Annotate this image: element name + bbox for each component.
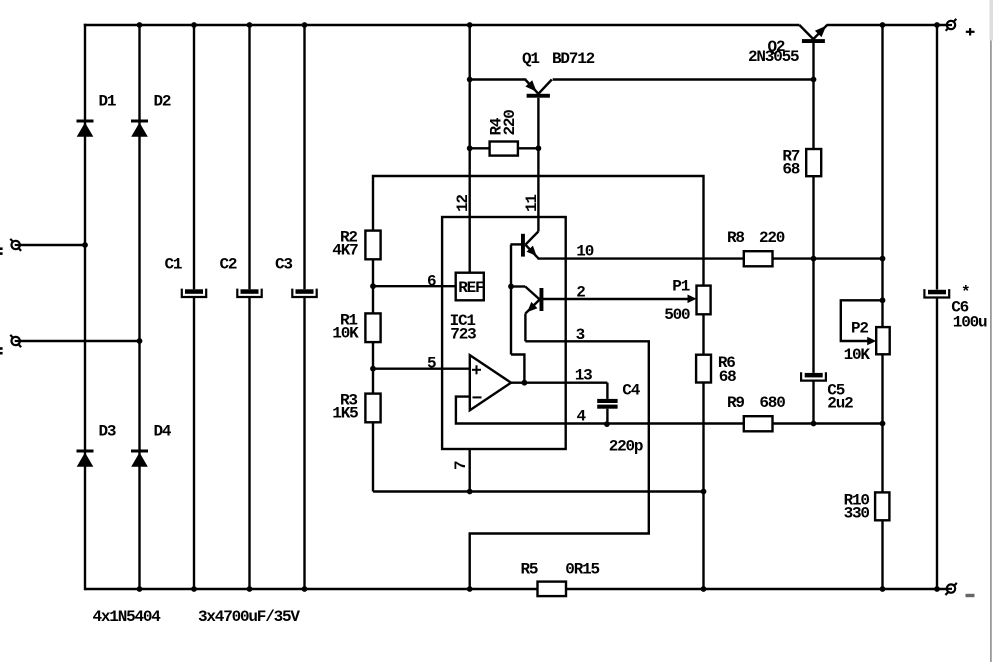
label minus — [966, 594, 975, 597]
svg-text:2N3055: 2N3055 — [748, 48, 799, 66]
label C1 — [165, 255, 182, 273]
wire pin5 — [373, 368, 470, 370]
svg-text:P2: P2 — [851, 319, 868, 337]
svg-text:C2: C2 — [220, 255, 237, 273]
label pin 2 — [576, 284, 585, 302]
resistor R2 — [365, 231, 380, 260]
wire P2 wiper loop — [841, 300, 883, 341]
svg-text:220: 220 — [759, 229, 785, 247]
svg-text:R5: R5 — [521, 560, 538, 578]
wire pin6 — [373, 285, 456, 287]
resistor R1 — [365, 313, 380, 342]
label D2 — [154, 92, 171, 110]
svg-text:3x4700uF/35V: 3x4700uF/35V — [198, 608, 300, 626]
wire output divider vertical — [881, 25, 883, 589]
svg-text:330: 330 — [844, 504, 870, 522]
resistor R8 — [744, 251, 773, 266]
wire pin10 R8 line — [538, 257, 883, 259]
svg-text:680: 680 — [759, 394, 785, 412]
wire Q1 collector to Q2 base — [553, 78, 814, 80]
capacitor C6 — [924, 289, 949, 297]
wire top rail right — [827, 24, 947, 26]
label C5 value — [827, 382, 853, 413]
label R8 value — [727, 229, 785, 247]
capacitor C1 — [182, 289, 206, 297]
label R6 value — [718, 354, 736, 386]
potentiometer P2 — [867, 327, 890, 354]
label capacitor note — [198, 608, 300, 626]
capacitor C2 — [237, 289, 261, 297]
svg-text:220: 220 — [501, 110, 519, 136]
terminal input 1 — [10, 239, 21, 251]
label plus — [966, 28, 975, 35]
svg-text:Q1: Q1 — [522, 50, 539, 68]
left edge cropped glyphs — [0, 247, 3, 354]
label R3 value — [332, 391, 358, 422]
wire pin7 net — [373, 449, 704, 492]
resistor R5 — [538, 582, 567, 597]
label P1 value — [664, 277, 690, 324]
wire C4 leads — [606, 383, 608, 424]
transistor Q2 — [799, 25, 827, 43]
op-amp U2 error amplifier — [470, 355, 511, 410]
capacitor C3 — [292, 289, 316, 297]
svg-text:R9: R9 — [727, 394, 744, 412]
wire input 2 — [20, 340, 140, 342]
svg-text:1K5: 1K5 — [332, 404, 358, 422]
diode D3 — [77, 450, 94, 467]
label R9 value — [727, 394, 785, 412]
wire R2 R1 R3 chain — [372, 259, 374, 491]
svg-text:68: 68 — [782, 161, 799, 179]
svg-text:C1: C1 — [165, 255, 182, 273]
label R5 value — [521, 560, 600, 578]
svg-text:723: 723 — [450, 325, 476, 343]
label pin 13 — [575, 367, 592, 385]
diode D1 — [77, 120, 94, 137]
resistor R10 — [875, 492, 889, 520]
svg-text:D2: D2 — [154, 92, 171, 110]
wire pin13 line — [511, 382, 607, 384]
capacitor C5 — [801, 372, 826, 380]
terminal output minus — [945, 583, 956, 595]
wire pin12 vertical — [469, 25, 471, 273]
label pin 3 — [576, 326, 585, 344]
wire R4 link — [470, 147, 539, 149]
REF block U1 — [456, 273, 484, 301]
wire input 1 — [20, 244, 85, 246]
svg-text:D3: D3 — [99, 422, 116, 440]
wire bottom rail — [85, 588, 947, 590]
diode D2 — [131, 120, 148, 137]
IC1 box — [442, 217, 566, 449]
wire pin11 vertical — [537, 98, 539, 232]
label R7 value — [782, 148, 799, 179]
label R4 value rotated — [488, 110, 520, 136]
transistor T2 internal — [511, 245, 543, 383]
svg-text:10K: 10K — [844, 346, 871, 364]
wire pin2 line — [543, 298, 689, 300]
svg-text:R8: R8 — [727, 229, 744, 247]
svg-text:4x1N5404: 4x1N5404 — [93, 608, 162, 626]
label D4 — [154, 422, 172, 440]
wire C1 vertical — [193, 25, 195, 589]
transistor Q1 — [525, 80, 552, 98]
wire Q2 base R7 C5 vertical — [812, 43, 814, 424]
label C4 value — [609, 382, 643, 456]
wire C2 vertical — [248, 25, 250, 589]
svg-text:10K: 10K — [332, 324, 359, 342]
label D1 — [99, 92, 116, 110]
diode D4 — [131, 450, 148, 467]
wire D2/D4 vertical — [138, 25, 140, 589]
svg-text:D1: D1 — [99, 92, 116, 110]
label IC1 723 — [450, 312, 477, 344]
resistor R3 — [365, 394, 380, 423]
label pin 4 — [577, 408, 587, 426]
label diode note — [93, 608, 162, 626]
potentiometer P1 — [688, 286, 711, 315]
svg-text:3: 3 — [576, 326, 585, 344]
svg-text:P1: P1 — [672, 277, 689, 295]
svg-text:2: 2 — [576, 284, 585, 302]
svg-text:7: 7 — [452, 461, 470, 470]
wire pin3 to R5 left — [470, 341, 649, 589]
svg-text:13: 13 — [575, 367, 592, 385]
svg-text:220p: 220p — [609, 437, 643, 455]
wire C6 vertical — [936, 25, 938, 589]
label D3 — [99, 422, 116, 440]
svg-text:0R15: 0R15 — [565, 560, 599, 578]
wire Vref top link — [373, 176, 704, 286]
svg-text:5: 5 — [427, 354, 436, 372]
wire C3 vertical — [303, 25, 305, 589]
wire P1 R6 vertical — [702, 314, 704, 589]
resistor R4 — [490, 142, 518, 156]
wire Q1 emitter feed — [470, 78, 527, 80]
wire top rail left — [84, 24, 800, 26]
svg-text:100u: 100u — [953, 313, 987, 331]
label C6 value — [951, 284, 987, 332]
label pin 7 — [452, 461, 470, 470]
label P2 value — [844, 319, 871, 364]
svg-text:12: 12 — [454, 195, 472, 212]
svg-text:68: 68 — [719, 368, 736, 386]
terminal input 2 — [10, 335, 21, 347]
label R2 value — [332, 228, 358, 259]
label C2 — [220, 255, 237, 273]
svg-text:REF: REF — [458, 279, 484, 297]
label pin 5 — [427, 354, 436, 372]
capacitor C4 — [597, 399, 617, 409]
wire left rail vertical — [84, 24, 86, 590]
svg-text:4K7: 4K7 — [332, 241, 358, 259]
label C3 — [275, 255, 292, 273]
resistor R7 — [806, 149, 821, 176]
svg-text:BD712: BD712 — [552, 50, 595, 68]
svg-text:10: 10 — [576, 243, 593, 261]
transistor T1 internal — [510, 232, 538, 259]
label Q2 2N3055 — [748, 38, 799, 66]
label Q1 BD712 — [522, 50, 595, 68]
terminal output plus — [946, 19, 957, 31]
resistor R6 — [696, 355, 711, 383]
label pin 10 — [576, 243, 593, 261]
label pin 6 — [427, 272, 436, 290]
resistor R9 — [744, 416, 773, 431]
svg-text:2u2: 2u2 — [827, 395, 853, 413]
label pin 11 — [523, 195, 541, 212]
svg-text:6: 6 — [427, 272, 436, 290]
scrollbar edge — [990, 0, 993, 662]
svg-text:500: 500 — [664, 306, 690, 324]
wire pin4 R9 line — [456, 397, 883, 424]
svg-text:11: 11 — [523, 195, 541, 212]
label R1 value — [332, 311, 359, 342]
svg-text:C3: C3 — [275, 255, 292, 273]
svg-text:C4: C4 — [622, 382, 640, 400]
label pin 12 — [454, 195, 472, 212]
label R10 value — [844, 491, 870, 522]
svg-text:D4: D4 — [154, 422, 172, 440]
